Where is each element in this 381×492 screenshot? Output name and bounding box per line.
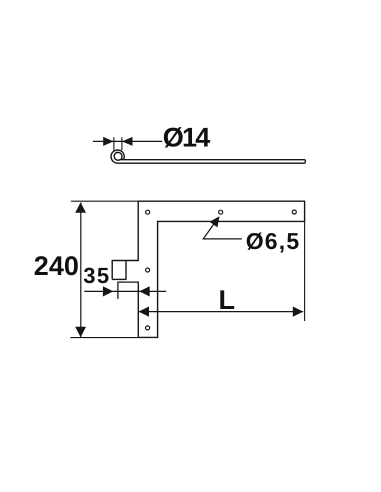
svg-text:240: 240	[34, 251, 79, 281]
plate outline (plan view)	[112, 201, 304, 337]
Ø14 left arrowhead	[103, 137, 113, 146]
hole 3 top strap	[292, 210, 296, 214]
240 top arrowhead	[75, 202, 86, 212]
240 bottom extension line	[70, 337, 138, 339]
side view: strap right end cap	[304, 160, 305, 164]
Ø14 extension line right	[121, 137, 123, 150]
hole 2 top strap	[219, 210, 223, 214]
knuckle fold line in plan view	[125, 261, 127, 280]
35 left arrowhead	[103, 286, 113, 296]
Ø6,5 leader line	[203, 223, 242, 239]
Ø14 right arrowhead	[122, 137, 132, 146]
35 right arrowhead	[139, 286, 149, 296]
Ø6,5 leader arrowhead	[210, 216, 220, 227]
side view: strap top surface and inner roll curl	[114, 152, 304, 160]
240 top extension line	[71, 200, 138, 202]
knuckle bottom edge	[112, 278, 126, 280]
svg-text:L: L	[219, 285, 236, 315]
L dimension line	[139, 311, 303, 313]
240 bottom arrowhead	[75, 327, 86, 337]
L right extension line	[304, 221, 306, 321]
hole 1 top strap	[146, 210, 150, 214]
svg-text:Ø6,5: Ø6,5	[246, 228, 301, 254]
240 dimension line	[80, 203, 82, 337]
hole 4 vertical strap	[146, 268, 150, 272]
svg-text:Ø14: Ø14	[163, 122, 210, 152]
side view: strap bottom surface and outer roll spiral	[111, 150, 304, 163]
L right arrowhead	[293, 307, 303, 317]
svg-text:35: 35	[83, 263, 110, 288]
L left arrowhead	[139, 307, 149, 317]
slot step edge	[118, 282, 139, 299]
Ø14 dimension line with leader	[93, 140, 162, 142]
hole 5 vertical strap	[146, 326, 150, 330]
Ø14 extension line left	[113, 137, 115, 150]
35 dimension line	[84, 290, 166, 292]
